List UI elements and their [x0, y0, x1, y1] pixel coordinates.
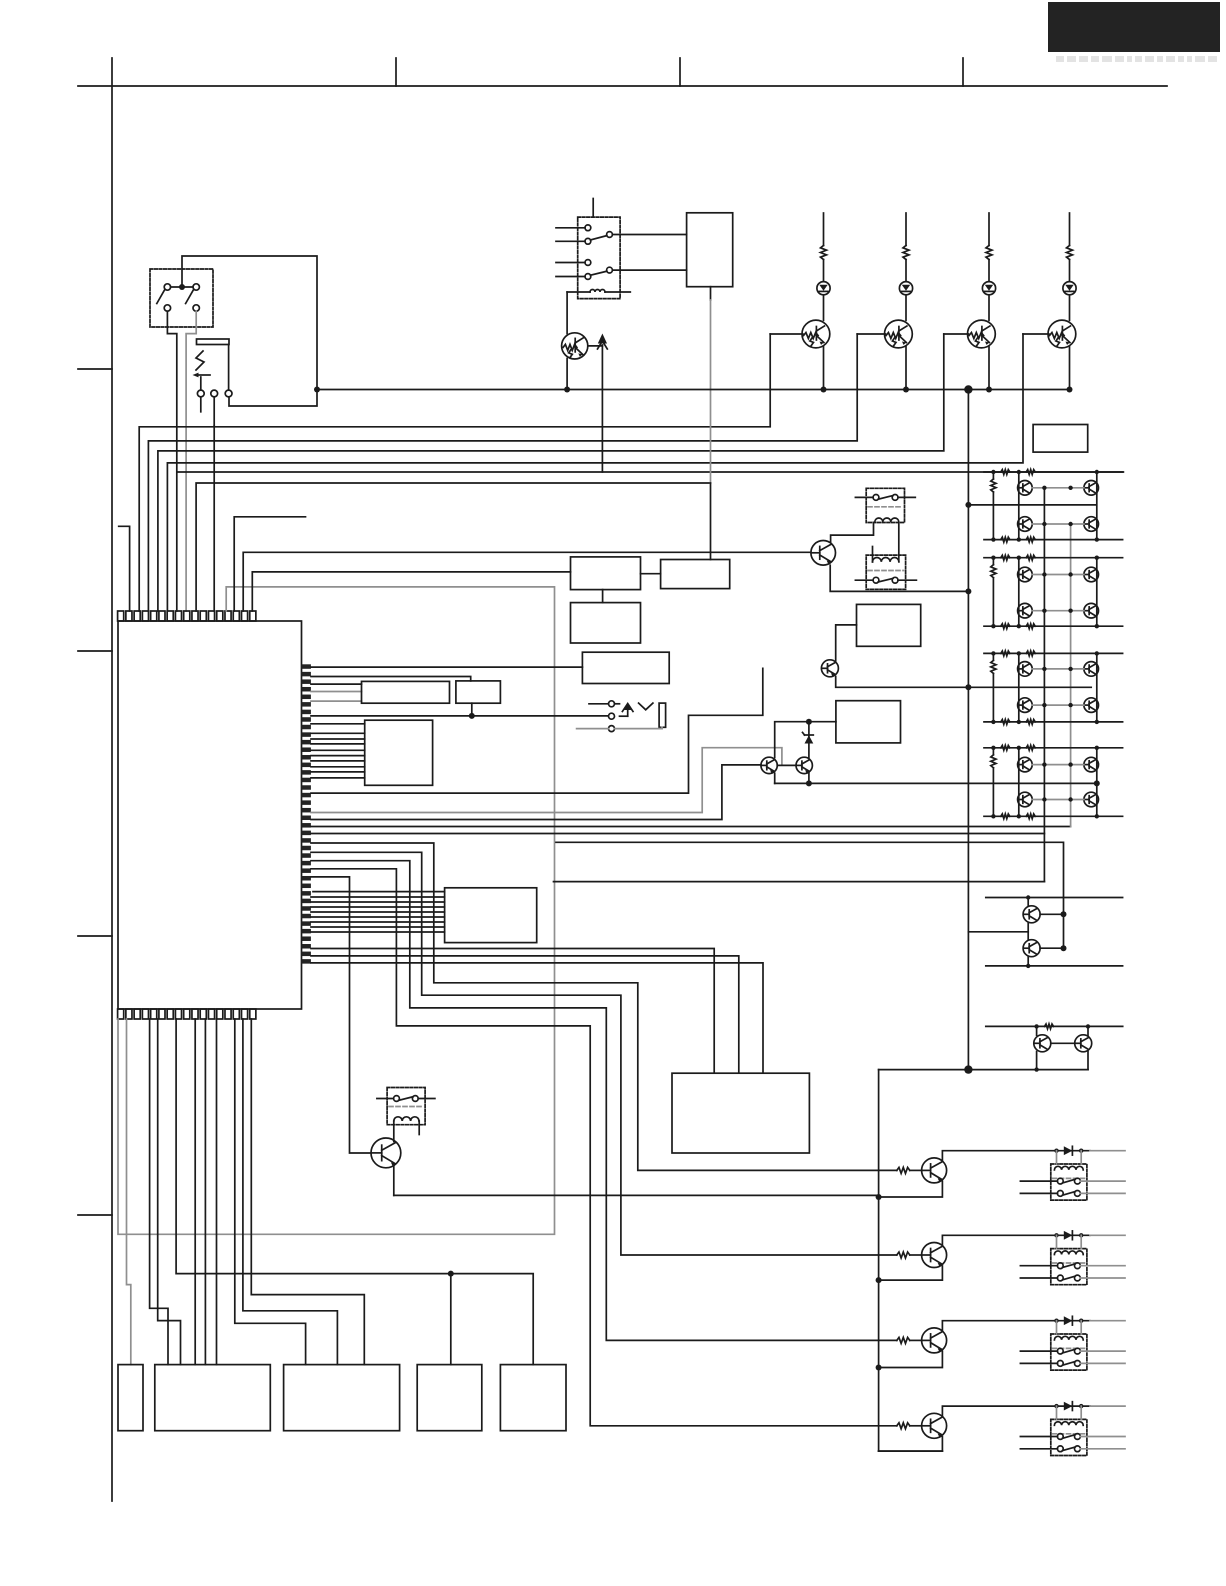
frame tick top 1 — [395, 58, 397, 86]
jack J2 tip stub — [589, 703, 609, 705]
array base link 7 — [1032, 764, 1084, 766]
resistor pair on top rail 4 — [1001, 745, 1010, 750]
wire Q2 emitter to bus — [905, 346, 907, 390]
array block 4 bottom rail — [984, 815, 1123, 817]
resistor pair on top rail 1 — [1001, 470, 1010, 475]
resistor R3 — [986, 246, 992, 260]
relay driver transistor Q12 — [922, 1413, 947, 1438]
array transistor QB5 — [1084, 662, 1099, 677]
wire IC pin13 loop (gray) — [118, 587, 555, 1234]
wire IC bottom pin b13 — [235, 1019, 306, 1365]
relay RY8 contact line — [377, 1098, 394, 1100]
wire IC to box G lead 3 — [311, 963, 763, 1073]
box M3 (bottom connector) — [284, 1365, 400, 1431]
array block 4 left column wire — [1018, 748, 1020, 817]
relay RY3 contact line — [855, 579, 873, 581]
LED column 1 supply wire — [823, 213, 825, 246]
transistor Q5 (relay driver) — [811, 541, 836, 566]
LED D3 — [982, 282, 995, 295]
relay RY7 contact lines — [1020, 1436, 1057, 1438]
wire Q7-Q8 base link — [777, 764, 796, 766]
array block 3 bottom rail — [984, 721, 1123, 723]
resistor RB2 — [897, 1252, 910, 1258]
stack transistor QS1 — [1023, 906, 1040, 923]
array transistor QB8 — [1084, 792, 1099, 807]
node: bus tap junction — [314, 387, 320, 393]
wire Q3 base lead — [944, 333, 969, 335]
array transistor QA3 — [1018, 567, 1033, 582]
relay RY6 enclosure — [1051, 1334, 1087, 1370]
resistor R2 — [903, 246, 909, 260]
LED column 2 supply wire — [905, 213, 907, 246]
box F (key matrix) — [445, 888, 537, 943]
resistor pair on bottom rail 1 — [1001, 537, 1010, 542]
jack J2 ring circle — [609, 713, 615, 719]
node: box L tap — [469, 713, 475, 719]
transistor Q3 — [968, 320, 996, 348]
relay RY6 contacts row1 — [1057, 1348, 1063, 1354]
relay RY2 coil — [875, 518, 899, 522]
wire LED to Q1 — [823, 295, 825, 321]
relay RY1 left stubs — [556, 227, 585, 229]
box L (reset) — [456, 681, 501, 703]
wire Q6 collector to box H — [836, 625, 857, 661]
wire Q9 emitter — [879, 1181, 943, 1197]
array transistor QA4 — [1018, 603, 1033, 618]
bottom pair resistor — [1045, 1024, 1054, 1029]
transistor Q1 — [802, 320, 830, 348]
relay RY2 divider — [868, 506, 903, 508]
wire box L to ring wire — [471, 703, 473, 716]
jack J1 body bar — [197, 339, 230, 345]
wire IC pin15 to Q5 base — [243, 552, 811, 611]
node: stack base tap 1 — [1061, 911, 1067, 917]
node: Q3 emitter junction — [986, 387, 992, 393]
relay RY7 contacts row1 — [1057, 1434, 1063, 1440]
heavy rail y783 — [775, 782, 1097, 784]
jack J1 tip arrow — [196, 374, 210, 376]
wire Q10 collector — [942, 1235, 1090, 1245]
wire RY1 top stub — [592, 199, 594, 218]
node: S1 common junction — [179, 284, 185, 290]
array block 3 top rail — [984, 652, 1123, 654]
wire IC right r3 to box K — [311, 683, 362, 685]
relay RY1 dashed enclosure — [578, 217, 620, 299]
wire Q7 emitter — [774, 773, 776, 783]
IC U1 top pin pads — [118, 611, 124, 621]
box D2 (tuner pack) — [687, 213, 733, 287]
relay RY6 coil — [1054, 1336, 1083, 1340]
relay RY4 coil — [1054, 1166, 1083, 1170]
switch S1 common bar — [171, 286, 193, 288]
relay driver transistor Q9 — [922, 1158, 947, 1183]
wire IC pin16 to box A — [252, 572, 570, 611]
LED D2 — [899, 282, 912, 295]
array block 2 left rail + resistor — [992, 558, 994, 565]
wire IC right r20 long to array (gray tap) — [311, 826, 1071, 828]
relay RY5 coil taps — [1056, 1235, 1058, 1248]
wire Q12 emitter — [879, 1437, 943, 1451]
wire bundle IC to box F — [311, 896, 445, 898]
wire IC to box G lead 1 — [311, 949, 714, 1074]
diode DD3 — [1064, 1316, 1073, 1325]
array transistor QB1 — [1084, 481, 1099, 496]
relay RY8 dashed enclosure — [387, 1088, 425, 1125]
node: zener tap — [806, 719, 812, 725]
node: diode taps 1 — [1054, 1149, 1058, 1153]
array transistor QA7 — [1018, 757, 1033, 772]
wire IC bottom pin b4 — [150, 1019, 168, 1365]
heavy rail y1069 — [879, 1069, 1088, 1071]
node: emitter rail tap 2 — [876, 1277, 882, 1283]
heavy link rail block1 — [968, 504, 1096, 506]
relay RY6 contact lines — [1020, 1350, 1057, 1352]
array block 4 right column wire — [1096, 748, 1098, 817]
jack J1 terminal circles — [197, 390, 204, 397]
wire LED to Q3 — [988, 295, 990, 321]
wire IC pin3 to Q1 base — [139, 334, 770, 611]
wire IC to relay driver Q11 base — [311, 861, 897, 1341]
relay RY8 contacts — [394, 1096, 400, 1102]
array transistor QB2 — [1084, 517, 1099, 532]
wire Q12 collector — [942, 1406, 1090, 1416]
wire IC right r5 to box K (gray) — [311, 700, 362, 702]
stack rail bottom — [986, 965, 1123, 967]
wire IC right r17 to Q6 base chain — [311, 668, 763, 793]
wire Q4 base lead — [1023, 333, 1049, 335]
array block 4 top rail — [984, 747, 1123, 749]
node: Q4 emitter junction — [1067, 387, 1073, 393]
node: Q1 emitter junction — [821, 387, 827, 393]
resistor RB4 — [897, 1423, 910, 1429]
wire IC to relay driver Q10 base — [311, 852, 897, 1255]
LED column 4 supply wire — [1069, 213, 1071, 246]
array base link 6 — [1032, 704, 1084, 706]
wire Q6 emitter heavy rail y687 — [836, 677, 1091, 688]
jack J1 sleeve wire — [228, 345, 230, 391]
resistor R4 — [1067, 246, 1073, 260]
wire IC bottom pin b11 — [216, 1019, 218, 1365]
array base link 8 — [1032, 799, 1084, 801]
jack J2 tip circle — [609, 701, 615, 707]
jack J2 plug arrow — [624, 703, 631, 710]
wire IC right r4 to box K (gray) — [311, 691, 362, 693]
box D (detector) — [582, 652, 669, 683]
wire IC bottom pin b5 — [158, 1019, 181, 1365]
relay RY7 enclosure — [1051, 1419, 1087, 1455]
wire Q11 collector — [942, 1321, 1090, 1331]
transistor QBL (relay driver) — [371, 1138, 401, 1168]
zener diode ZD1 — [808, 722, 810, 758]
wire Q2 base lead — [857, 333, 885, 335]
node: diode taps 2 — [1054, 1233, 1058, 1237]
array transistor QB6 — [1084, 698, 1099, 713]
relay RY4 contacts row1 — [1057, 1178, 1063, 1184]
wire IC right r19 to Q7 base chain — [311, 765, 761, 820]
heavy branch bottom — [879, 1450, 943, 1452]
LED column 3 supply wire — [988, 213, 990, 246]
relay RY7 divider — [1053, 1433, 1086, 1435]
node: Q0 emitter junction — [564, 387, 570, 393]
relay RY3 contacts — [873, 577, 879, 583]
wire RY2 coil to RY3 coil — [898, 523, 900, 562]
array block 1 left rail + resistor — [992, 472, 994, 479]
relay RY5 contacts row2 — [1057, 1275, 1063, 1281]
array transistor QB4 — [1084, 603, 1099, 618]
transistor Q6 — [821, 660, 838, 677]
frame tick left 4 — [78, 1214, 112, 1216]
relay RY4 contact lines — [1020, 1180, 1057, 1182]
wire IC right r2 to box L — [311, 677, 471, 681]
wire S1 common loop to AC bus — [182, 256, 317, 406]
wire Q5 collector to coil — [831, 523, 874, 543]
wire IC right r1 to box D — [311, 666, 582, 668]
diode DD4 — [1064, 1402, 1073, 1411]
array transistor QA6 — [1018, 698, 1033, 713]
wire array base column 2 — [1043, 488, 1045, 834]
array base link 1 — [1032, 487, 1084, 489]
border frame left rule — [111, 58, 113, 1501]
node: main vertical tap — [964, 385, 972, 393]
node: stack base tap 2 — [1061, 945, 1067, 951]
node: diode taps 4 — [1054, 1404, 1058, 1408]
node: junction on b7 wire — [448, 1271, 454, 1277]
array transistor QB7 — [1084, 757, 1099, 772]
wire IC pin2 stub — [119, 526, 130, 611]
node: Q2 emitter junction — [903, 387, 909, 393]
wire jack terminal 2 feed — [213, 397, 215, 426]
wire Q7 collector to box I — [775, 722, 836, 758]
box M4 (bottom connector) — [417, 1365, 482, 1431]
main heavy vertical rail — [967, 390, 969, 1070]
LED D1 — [817, 282, 830, 295]
relay RY2 contacts — [873, 495, 879, 501]
box C (filter) — [661, 560, 730, 589]
wire IC to box F lead — [313, 891, 445, 893]
relay RY3 coil — [873, 558, 899, 562]
frame tick left 2 — [78, 650, 112, 652]
relay RY7 coil taps — [1056, 1406, 1058, 1419]
array transistor QA2 — [1018, 517, 1033, 532]
resistor pair on bottom rail 3 — [1001, 720, 1010, 725]
wire pair-stack base feed — [556, 842, 1064, 948]
wire bundle IC to box E — [311, 723, 365, 725]
array base link 4 — [1032, 610, 1084, 612]
frame tick top 2 — [679, 58, 681, 86]
wire IC pin4 to Q2 base — [148, 334, 857, 611]
relay RY1 contact circles a — [585, 225, 591, 231]
wire IC to box G lead 2 — [311, 956, 739, 1073]
array base link 3 — [1032, 574, 1084, 576]
relay RY2 dashed enclosure — [866, 488, 904, 522]
transistor Q7 — [761, 757, 777, 773]
transistor Q8 — [796, 757, 812, 773]
box I (sensor) — [836, 701, 901, 743]
relay RY4 coil taps — [1056, 1151, 1058, 1164]
resistor pair on top rail 2 — [1001, 555, 1010, 560]
wire array base column (gray) — [1070, 524, 1072, 827]
relay RY3 divider — [868, 570, 904, 572]
wire LED to Q4 — [1069, 295, 1071, 321]
wire Q10 emitter — [879, 1266, 943, 1280]
stack transistor QS2 — [1023, 940, 1040, 957]
relay RY7 coil — [1054, 1422, 1083, 1426]
wire Q0 emitter to bus — [566, 359, 568, 390]
relay RY8 coil stub — [418, 1121, 420, 1135]
stack base stubs — [1040, 913, 1063, 915]
wire Q5 emitter to rail — [830, 565, 967, 591]
box M1 (bottom connector) — [118, 1365, 143, 1431]
diode DD1 — [1064, 1146, 1073, 1155]
node: rail tap y591 — [965, 588, 971, 594]
wire IC pin14 stub — [234, 517, 305, 611]
relay RY6 coil taps — [1056, 1321, 1058, 1334]
relay RY4 divider — [1053, 1177, 1086, 1179]
bottom pair rail — [986, 1025, 1123, 1027]
array transistor QB3 — [1084, 567, 1099, 582]
wire QBL collector to coil — [393, 1121, 395, 1142]
box A (regulator) — [571, 557, 641, 590]
wire IC bottom pin b15 — [251, 1019, 364, 1365]
wire S1 pole 2 down to IC pin (sense) — [186, 311, 196, 611]
relay RY3 dashed enclosure — [866, 555, 905, 589]
transistor Q2 — [885, 320, 913, 348]
relay RY5 coil — [1054, 1251, 1083, 1255]
wire box A to box B — [602, 590, 604, 603]
box H (protection) — [857, 604, 921, 646]
title block (filled) — [1048, 2, 1220, 52]
jack J1 switch spring — [196, 351, 204, 370]
array block 3 right column wire — [1096, 653, 1098, 722]
wire sense arrow feed — [601, 345, 603, 472]
array block 3 left column wire — [1018, 653, 1020, 722]
box M2 (bottom connector) — [155, 1365, 270, 1431]
AC power bus — [317, 389, 1070, 391]
heavy stub to stack — [968, 931, 1028, 933]
array base link 5 — [1032, 668, 1084, 670]
array block 3 left rail + resistor — [992, 653, 994, 660]
relay RY5 divider — [1053, 1262, 1086, 1264]
wire Q1 base lead — [770, 333, 803, 335]
array block 2 top rail — [984, 557, 1123, 559]
LED D4 — [1063, 282, 1076, 295]
heavy wire QBL emitter rail — [394, 1194, 879, 1196]
heavy link rail block4 tap — [1094, 780, 1100, 786]
resistor R1 — [821, 246, 827, 260]
IC U1 right pin pads — [302, 664, 311, 669]
wire Q9 collector — [942, 1151, 1090, 1161]
bottom pair transistor QT1 — [1034, 1035, 1051, 1052]
wire IC to relay driver Q12 base — [311, 869, 897, 1426]
array block 4 left rail + resistor — [992, 748, 994, 755]
wire IC bottom pin b2 (gray) — [127, 1019, 131, 1365]
wire coil to Q0 collector — [566, 292, 568, 334]
node: rail y687 crossing — [965, 684, 971, 690]
wire jack shield (gray) — [577, 728, 609, 730]
array transistor QA8 — [1018, 792, 1033, 807]
relay driver transistor Q10 — [922, 1243, 947, 1268]
jack J2 shield circle — [609, 726, 615, 732]
wire IC pin9 to box C feed — [196, 483, 710, 611]
array base link 2 — [1032, 523, 1084, 525]
switch S1 arms — [157, 290, 165, 303]
relay RY8 divider — [389, 1106, 423, 1108]
wire Q8 emitter — [808, 773, 810, 783]
transistor Q4 — [1048, 320, 1076, 348]
wire jack terminal 2 to IC — [213, 426, 215, 611]
wire IC pin6 to Q4 base — [167, 334, 1023, 611]
wire IC bottom pin b10 — [204, 1019, 206, 1365]
bottom pair transistor QT2 — [1075, 1035, 1092, 1052]
relay driver transistor Q11 — [922, 1328, 947, 1353]
box J (option) — [1033, 425, 1088, 453]
node: main rail bottom junction — [964, 1065, 972, 1073]
box M5 (bottom connector) — [500, 1365, 566, 1431]
IC U1 bottom pin pads — [118, 1009, 124, 1019]
resistor pair on top rail 3 — [1001, 651, 1010, 656]
box G (power unit) — [672, 1073, 809, 1153]
wire IC bottom pin b9 — [194, 1019, 196, 1365]
wire QBL emitter — [393, 1165, 395, 1196]
frame tick top 3 — [962, 58, 964, 86]
wire return rail y881 — [554, 881, 1045, 883]
switch S1 dashed enclosure — [150, 269, 213, 327]
wire IC bottom pin b7 to boxes 4/5 — [176, 1019, 533, 1365]
wire IC to relay driver Q9 base — [311, 843, 897, 1170]
relay RY7 contacts row2 — [1057, 1446, 1063, 1452]
resistor pair on bottom rail 4 — [1001, 814, 1010, 819]
node: emitter rail tap 1 — [876, 1194, 882, 1200]
node: rail y783 tap — [806, 780, 812, 786]
relay RY8 coil — [394, 1117, 419, 1121]
frame tick left 1 — [78, 368, 112, 370]
wire IC to relay driver Q13 base — [311, 877, 371, 1153]
heavy branch vertical — [878, 1070, 880, 1452]
array block 2 bottom rail — [984, 625, 1123, 627]
wire Q3 emitter to bus — [988, 346, 990, 390]
arrow up on sense line — [598, 334, 607, 344]
relay RY1 contact circles b — [585, 260, 591, 266]
jack J2 sleeve bar — [659, 703, 666, 727]
relay RY2 contact line — [855, 496, 873, 498]
wire Q0 base to sense — [588, 345, 602, 347]
stack rail top — [986, 897, 1123, 899]
diode DD2 — [1064, 1231, 1073, 1240]
array block 1 bottom rail — [984, 539, 1123, 541]
node: emitter rail tap 3 — [876, 1365, 882, 1371]
border frame top rule — [78, 85, 1167, 87]
wire IC right r18 to Q8 base chain (gray) — [311, 748, 782, 813]
array block 1 right column wire — [1096, 472, 1098, 540]
wire IC bottom pin b14 — [243, 1019, 338, 1365]
bottom pair wires — [1036, 1026, 1038, 1035]
wire jack terminal 1 stub — [200, 397, 202, 412]
node: diode taps 3 — [1054, 1319, 1058, 1323]
wire LED to Q2 — [905, 295, 907, 321]
relay RY6 contacts row2 — [1057, 1361, 1063, 1367]
wire Q11 emitter — [879, 1351, 943, 1367]
resistor RB1 — [897, 1167, 910, 1173]
switch S1 contact circles — [164, 284, 170, 290]
node block1 link — [965, 502, 971, 508]
relay RY5 enclosure — [1051, 1249, 1087, 1285]
wire Q4 emitter to bus — [1069, 346, 1071, 390]
resistor RB3 — [897, 1337, 910, 1343]
wire IC right r21 to stack feed — [311, 834, 1044, 882]
wire Q1 emitter to bus — [823, 346, 825, 390]
array block 1 top rail — [984, 471, 1123, 473]
relay RY4 contacts row2 — [1057, 1191, 1063, 1197]
